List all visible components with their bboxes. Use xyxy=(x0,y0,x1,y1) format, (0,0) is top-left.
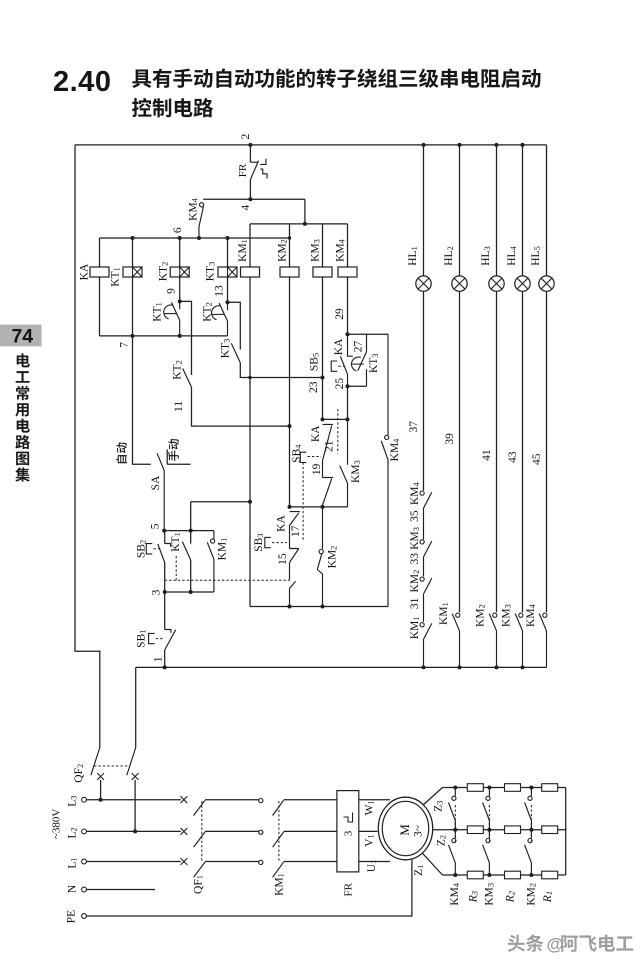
lamp HL2 xyxy=(452,276,467,291)
svg-text:11: 11 xyxy=(173,401,185,412)
node 6 bus end xyxy=(288,236,291,239)
mech link SB4-KA21 dashed xyxy=(308,456,322,458)
wire HL4 mid xyxy=(522,291,524,612)
node KM3b-419 xyxy=(346,417,350,421)
terminal L3 xyxy=(82,797,87,802)
node chain-507 xyxy=(321,505,325,509)
node 1 xyxy=(163,665,167,669)
contact KM2 NC lamp chain xyxy=(420,577,424,581)
node KT1-5 xyxy=(189,529,193,533)
pushbutton SB2 (NC) xyxy=(158,544,171,563)
terminal PE xyxy=(82,914,87,919)
title line 1 xyxy=(132,70,151,88)
svg-text:13: 13 xyxy=(213,285,225,297)
breaker QF1 pole L3 xyxy=(194,800,205,815)
timer coil KT3 xyxy=(218,267,237,277)
contactor KM3 rotor contacts xyxy=(488,788,490,797)
svg-text:3~: 3~ xyxy=(412,825,424,837)
wire bus 507 xyxy=(290,506,348,508)
contact KM1 NC lamp chain xyxy=(420,623,424,627)
contact KM4 self-hold xyxy=(387,334,389,435)
svg-text:1: 1 xyxy=(153,656,165,662)
terminal L2 xyxy=(82,829,87,834)
lamp HL1 xyxy=(416,276,431,291)
svg-text:FR: FR xyxy=(343,882,355,896)
node lamp bottom xyxy=(458,665,462,669)
wire mid bottom bus xyxy=(250,606,388,608)
wire KM2 coil top xyxy=(289,224,291,267)
node KT3-6 xyxy=(226,236,230,240)
terminal N xyxy=(82,887,87,892)
svg-text:17: 17 xyxy=(290,525,302,537)
resistor R3 row xyxy=(467,784,483,792)
svg-text:KA: KA xyxy=(78,263,90,280)
timer coil KT1 xyxy=(123,267,142,277)
wire Z3 lead xyxy=(412,788,443,816)
breaker QF2 pole 1 xyxy=(91,748,100,776)
contactor KM1 pole L3 xyxy=(273,800,284,815)
wire KM1 column xyxy=(249,277,251,607)
contact KM3 self-hold xyxy=(340,419,348,507)
node lamp bottom xyxy=(495,665,499,669)
timer contact KT3 delayed xyxy=(358,334,367,386)
svg-text:2.40: 2.40 xyxy=(53,66,111,98)
breaker QF1 pole L2 xyxy=(194,832,205,847)
wire L3 to motor xyxy=(359,799,390,801)
resistor R2 row xyxy=(505,871,521,879)
watermark text xyxy=(508,935,525,952)
node HL2 top xyxy=(458,143,462,147)
node KM4-6 xyxy=(197,236,201,240)
lamp HL4 xyxy=(515,276,530,291)
wire KM2 column xyxy=(289,277,291,507)
wire KT1 branch top xyxy=(191,502,250,544)
contact SB3 linked blade xyxy=(290,581,296,606)
wire SB1 top xyxy=(164,592,166,630)
node KM2-607 xyxy=(288,605,292,609)
contactor coil KM2 xyxy=(280,267,299,277)
contactor KM2 rotor contacts xyxy=(530,788,532,797)
svg-text:7: 7 xyxy=(119,342,131,348)
node 3 xyxy=(163,590,167,594)
node KM2 rail xyxy=(529,828,533,832)
terminal x L1 xyxy=(181,858,188,865)
wire 334 line xyxy=(348,333,389,335)
timer contact KT2 delayed xyxy=(219,302,227,336)
wire KM3 coil top xyxy=(322,224,324,267)
resistor R2 row xyxy=(505,784,521,792)
svg-text:PE: PE xyxy=(65,910,77,923)
wire KT1 to 3 xyxy=(190,560,192,592)
motor M circle xyxy=(378,797,432,860)
wire HL2 mid xyxy=(459,291,461,612)
contactor coil KM1 xyxy=(241,267,260,277)
svg-text:9: 9 xyxy=(165,288,177,294)
wire bus 1 xyxy=(136,666,547,668)
wire SB2 bottom xyxy=(164,563,166,593)
contact KA 17 (NO) xyxy=(290,512,300,549)
svg-text:3: 3 xyxy=(150,589,162,595)
node 4 xyxy=(248,197,252,201)
wire KT3 column xyxy=(227,238,229,302)
node QF2-L3 xyxy=(99,798,103,802)
wire 386 line xyxy=(348,385,367,387)
node KM2 rail xyxy=(529,873,533,877)
wire HL3 mid xyxy=(496,291,498,612)
mech link KA dashed xyxy=(337,409,339,454)
svg-text:M: M xyxy=(397,824,412,836)
node HL4 top xyxy=(521,143,525,147)
wire Z1 lead xyxy=(413,843,443,875)
node 23-KM1 crossing xyxy=(248,376,251,379)
breaker QF1 pole L1 xyxy=(194,862,205,877)
title line 2 xyxy=(132,98,151,117)
svg-text:3: 3 xyxy=(343,830,355,836)
svg-text:23: 23 xyxy=(308,381,320,393)
watermark shadow xyxy=(509,936,526,953)
node KM4 rail xyxy=(453,873,457,877)
svg-text:25: 25 xyxy=(334,378,346,390)
mech link KM1 dashed xyxy=(278,801,280,862)
page number box xyxy=(0,325,42,347)
wire L2 in xyxy=(86,830,180,832)
mech link QF2 dashed xyxy=(94,765,128,767)
node 25 xyxy=(346,384,350,388)
wire KM3 column xyxy=(322,277,324,419)
node 9 xyxy=(178,299,182,303)
sidebar book title xyxy=(17,353,30,367)
wire L1 to motor xyxy=(359,861,390,863)
node KT1-3 xyxy=(189,590,193,594)
svg-text:39: 39 xyxy=(444,433,456,445)
node KM3-419 xyxy=(321,417,325,421)
svg-text:33: 33 xyxy=(409,553,421,565)
wire rotor rail bottom xyxy=(443,874,566,876)
node KM2sh-607 xyxy=(321,605,325,609)
svg-text:27: 27 xyxy=(353,341,365,353)
node KM1-501 xyxy=(248,500,252,504)
svg-text:5: 5 xyxy=(149,523,161,529)
wire KA column xyxy=(99,238,101,336)
pushbutton SB4 (NO) xyxy=(323,478,334,507)
svg-text:6: 6 xyxy=(172,227,184,233)
svg-text:19: 19 xyxy=(311,463,323,475)
svg-text:~380V: ~380V xyxy=(50,809,62,839)
wire FR drop xyxy=(249,145,251,162)
wire bus 5 xyxy=(164,530,214,532)
contactor coil KM4 xyxy=(338,267,357,277)
node KM2 rail xyxy=(529,786,533,790)
contact KT1 NO xyxy=(182,542,190,561)
svg-text:KA: KA xyxy=(310,425,322,442)
node 2 xyxy=(248,143,252,147)
node KT1d-7 xyxy=(178,334,182,338)
wire line 7 xyxy=(100,335,228,337)
wire FR to node 4 xyxy=(249,179,251,199)
contact KA 21 (NO) xyxy=(323,424,334,477)
contactor KM4 rotor contacts xyxy=(454,788,456,797)
wire HL2 column upper xyxy=(459,145,461,276)
contactor KM1 pole L1 xyxy=(273,862,284,877)
wire KM4 column xyxy=(347,277,349,334)
node lamp bottom xyxy=(422,665,426,669)
wire 13 jog xyxy=(228,302,241,349)
resistor R1 row xyxy=(542,871,558,879)
wire HL5 column upper xyxy=(546,145,548,276)
contact KM1 self-hold xyxy=(211,539,215,543)
node QF2-L2 xyxy=(133,829,137,833)
svg-text:45: 45 xyxy=(531,453,543,465)
terminal x L3 xyxy=(181,796,188,803)
svg-text:21: 21 xyxy=(324,440,336,452)
wire coil feed line xyxy=(250,223,348,225)
svg-text:29: 29 xyxy=(334,308,346,320)
node KM4 rail xyxy=(453,786,457,790)
wire HL4 column upper xyxy=(522,145,524,276)
svg-text:15: 15 xyxy=(277,553,289,565)
wire rotor rail mid xyxy=(455,829,565,831)
label auto xyxy=(116,443,127,464)
wire HL1 column upper xyxy=(423,145,425,276)
wire bus 6 xyxy=(100,237,290,239)
svg-text:31: 31 xyxy=(409,597,421,609)
wire PE xyxy=(86,858,412,916)
wire Z2 lead xyxy=(415,829,455,831)
lamp HL3 xyxy=(489,276,504,291)
wire L3 in xyxy=(86,799,180,801)
node coil feed xyxy=(303,222,307,226)
contact KA 25 (NC) xyxy=(340,334,353,386)
wire left border xyxy=(75,145,100,748)
resistor R3 row xyxy=(467,871,483,879)
wire HL3 column upper xyxy=(496,145,498,276)
svg-text:KA: KA xyxy=(276,515,288,532)
node KT2-6 xyxy=(178,236,182,240)
wire KM4 coil top xyxy=(347,224,349,267)
node HL1 top xyxy=(422,143,426,147)
resistor R1 row xyxy=(542,826,558,834)
mech link SB4-SB3 dashed xyxy=(302,463,304,542)
node KM2-507 xyxy=(288,505,292,509)
wire bus1 to QF2 xyxy=(135,667,137,747)
wire top bus line 2 xyxy=(75,144,547,146)
wire 11 xyxy=(192,387,290,426)
node KA-7 xyxy=(131,334,135,338)
node 5 xyxy=(162,529,166,533)
contact KM4 top (NO) xyxy=(200,203,204,207)
wire KM4 rung down xyxy=(347,386,349,419)
node KM4 rail xyxy=(453,828,457,832)
resistor R3 row xyxy=(467,826,483,834)
thermal relay contact FR xyxy=(250,159,267,179)
svg-text:KA: KA xyxy=(333,338,345,355)
node 11 end xyxy=(288,424,292,428)
wire line 4 xyxy=(203,199,305,224)
wire L1 in xyxy=(86,861,180,863)
contactor KM1 pole L2 xyxy=(273,832,284,847)
relay coil KA xyxy=(90,267,109,277)
timer coil KT2 xyxy=(170,267,189,277)
node KM3 rail xyxy=(487,828,491,832)
contact KM1 lamp (NO) xyxy=(456,613,460,617)
wire KT2 column xyxy=(179,238,181,301)
wire HL1 mid xyxy=(423,291,425,491)
contact KM4 NC lamp chain xyxy=(420,491,424,495)
node KM3 rail xyxy=(487,786,491,790)
breaker QF2 pole 2 xyxy=(127,748,136,776)
terminal x L2 xyxy=(181,828,188,835)
pushbutton SB1 (NC) xyxy=(165,630,176,651)
contact KM3 lamp (NO) xyxy=(519,613,523,617)
svg-text:N: N xyxy=(67,884,79,893)
wire KM1 coil top xyxy=(249,224,251,267)
contact KM4 lamp (NO) xyxy=(543,613,547,617)
resistor R1 row xyxy=(542,784,558,792)
node 13 xyxy=(226,300,230,304)
node KT1-6 xyxy=(131,236,135,240)
contactor coil KM3 xyxy=(313,267,332,277)
contact KM2 lamp (NO) xyxy=(493,613,497,617)
node 23 end xyxy=(321,376,325,380)
svg-text:4: 4 xyxy=(240,204,252,210)
wire L2 to motor xyxy=(359,830,378,832)
node HL3 top xyxy=(495,143,499,147)
wire KT1 column xyxy=(132,238,134,336)
svg-text:FR: FR xyxy=(237,163,249,177)
wire SB1 bottom xyxy=(164,650,166,667)
svg-text:2: 2 xyxy=(240,133,252,139)
timer contact KT1 delayed xyxy=(171,301,179,336)
wire N xyxy=(86,889,155,891)
node 29 xyxy=(346,332,350,336)
svg-text:SA: SA xyxy=(150,475,162,490)
mech link QF1 dashed xyxy=(201,801,203,862)
wire manual pad xyxy=(167,449,190,464)
thermal relay FR box xyxy=(337,791,359,872)
svg-text:41: 41 xyxy=(481,449,493,461)
svg-text:@: @ xyxy=(547,934,564,954)
wire 9 jog xyxy=(180,301,192,375)
contact KT2 NO xyxy=(183,369,192,388)
wire rotor star xyxy=(565,788,567,876)
wire HL5 mid xyxy=(546,291,548,612)
wire 419 link xyxy=(323,418,348,420)
wire bus 3 xyxy=(165,591,214,593)
contact KM3 NC lamp chain xyxy=(420,540,424,544)
node lamp bottom xyxy=(521,665,525,669)
contact KM2 self-hold xyxy=(322,507,324,549)
wire 23 xyxy=(240,363,322,378)
svg-text:43: 43 xyxy=(507,451,519,463)
switch SA blade xyxy=(157,453,164,530)
mech link SB2-SB3 dashed xyxy=(165,556,290,580)
wire rotor rail top xyxy=(443,787,566,789)
pushbutton SB3 (NO) xyxy=(290,549,299,581)
resistor R2 row xyxy=(505,826,521,834)
svg-text:37: 37 xyxy=(408,421,420,433)
terminal L1 xyxy=(82,859,87,864)
label manual xyxy=(168,439,179,461)
wire auto branch xyxy=(133,336,151,464)
lamp HL5 xyxy=(539,276,554,291)
wire SB2 top xyxy=(164,531,166,544)
contact KT3 NO xyxy=(231,343,240,363)
svg-text:35: 35 xyxy=(409,510,421,522)
node KM3 rail xyxy=(487,873,491,877)
svg-text:74: 74 xyxy=(11,326,33,348)
